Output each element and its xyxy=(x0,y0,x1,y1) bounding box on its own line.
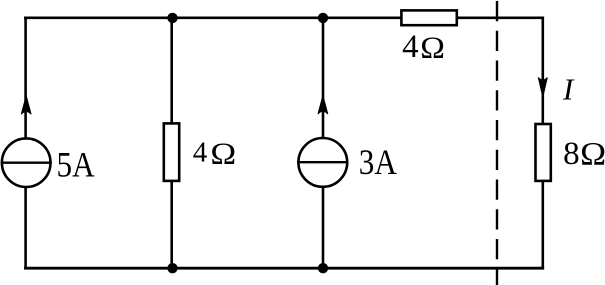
wire I2 branch upper xyxy=(322,18,325,139)
resistor R2 4ohm horizontal xyxy=(401,10,456,25)
svg-text:8: 8 xyxy=(563,136,580,172)
svg-text:Ω: Ω xyxy=(580,136,605,172)
svg-text:I: I xyxy=(562,72,575,107)
wire R1 branch upper xyxy=(170,18,173,124)
svg-text:5A: 5A xyxy=(57,144,95,184)
arrow of source I1 (up) xyxy=(21,96,31,114)
wire right branch lower xyxy=(541,181,544,269)
svg-text:4: 4 xyxy=(402,29,419,65)
wire bottom xyxy=(24,267,544,270)
label 4ohm (R2) xyxy=(402,29,445,65)
svg-text:Ω: Ω xyxy=(420,29,445,64)
label 4ohm (R1) xyxy=(193,137,237,172)
node dot bottom B xyxy=(318,263,328,273)
dashed cut line xyxy=(496,1,498,285)
wire left branch lower xyxy=(24,187,27,269)
svg-text:4: 4 xyxy=(193,137,208,169)
arrow of current I (down) xyxy=(538,78,547,98)
svg-text:3A: 3A xyxy=(359,142,397,182)
wire R1 branch lower xyxy=(170,181,173,268)
resistor R3 8ohm xyxy=(536,124,551,181)
wire top right segment xyxy=(457,16,544,19)
current source I1 5A xyxy=(1,138,52,187)
node dot top B xyxy=(318,13,328,23)
wire left branch upper xyxy=(24,17,27,139)
arrow of source I2 (up) xyxy=(318,96,328,114)
node dot bottom A xyxy=(167,263,177,273)
node dot top A xyxy=(167,13,177,23)
svg-text:Ω: Ω xyxy=(210,137,236,171)
label 8ohm (R3) xyxy=(563,136,605,172)
resistor R1 4ohm vertical xyxy=(164,123,179,180)
current source I2 3A xyxy=(297,138,348,187)
wire right branch upper xyxy=(541,17,544,125)
wire I2 branch lower xyxy=(322,187,325,268)
wire top left segment xyxy=(24,16,401,19)
